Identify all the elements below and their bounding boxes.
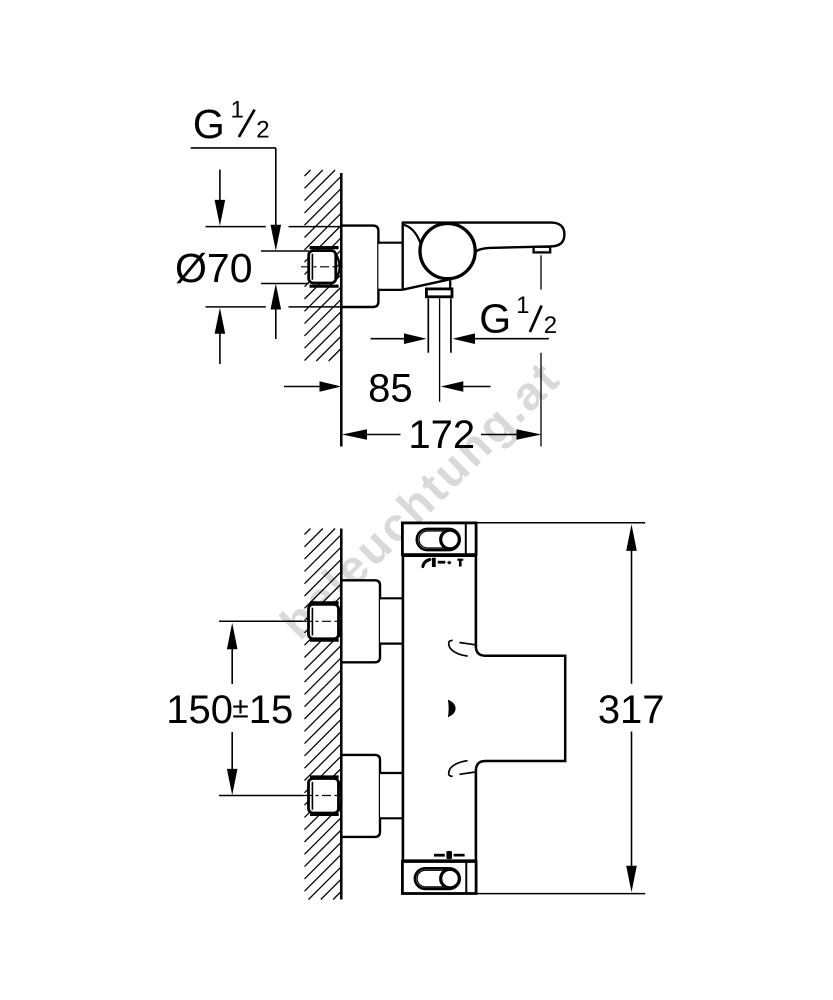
escutcheon block upper (341, 580, 380, 662)
bar left edge (402, 523, 405, 893)
dim 317 ext bottom (476, 893, 645, 895)
dim 85 left arrow (320, 381, 342, 392)
dim 85 left tail (284, 386, 321, 388)
fitting S1 centerline (301, 266, 342, 268)
label G 1/2 top (193, 97, 270, 147)
spout outlet nub (534, 247, 551, 253)
dim O70 lower tail (219, 333, 221, 364)
connector upper fill (380, 599, 403, 642)
dim G1/2 lower tail (275, 308, 277, 339)
svg-text:1: 1 (516, 292, 529, 319)
cartridge circle (420, 224, 475, 279)
svg-text:G: G (479, 296, 511, 342)
dim 150 ext lower dashdot (303, 795, 341, 797)
dim G1/2 top underline (191, 147, 276, 149)
wall face line (top view) (340, 173, 343, 447)
connector bottom edge (378, 289, 402, 291)
bottom button inner stadium (417, 870, 457, 887)
icon hook (shower) (423, 560, 430, 567)
dim G1/2 top arrow down (271, 225, 282, 251)
bar right edge lower segment (475, 770, 478, 894)
dim 172 right tail (481, 434, 517, 436)
svg-text:150: 150 (166, 688, 233, 732)
bar right edge upper segment (475, 523, 478, 647)
dim G1/2 pipe right tail (474, 338, 549, 340)
connector fill (378, 244, 402, 289)
dim 317 upper line (631, 550, 633, 684)
fitting S2 dark bar lower (310, 639, 339, 642)
dim G1/2 pipe left tail (371, 338, 405, 340)
svg-text:G: G (193, 101, 225, 147)
connector upper top edge (380, 597, 403, 599)
mid block outline (485, 656, 565, 761)
fitting S1 dark bar upper (310, 246, 339, 249)
svg-text:2: 2 (544, 312, 557, 339)
label G 1/2 pipe (479, 292, 557, 341)
svg-text:172: 172 (408, 413, 475, 457)
svg-text:±: ± (232, 692, 248, 725)
dim 172 left arrow (342, 429, 367, 440)
dim 85 right tail (462, 386, 491, 388)
body bottom diagonal (403, 279, 450, 289)
top button stadium (417, 529, 460, 550)
bottom button stadium (415, 868, 460, 889)
dim G1/2 ext line upper (261, 250, 309, 252)
handle hook bottom line (459, 772, 474, 774)
dim G1/2 top leader (275, 148, 277, 228)
connector top edge (378, 242, 402, 244)
dim 150 arrow down (227, 769, 238, 795)
dim O70 ext top left (206, 226, 266, 228)
dim O70 arrow down (215, 200, 226, 226)
bottom icon symbol (446, 851, 452, 859)
pipe left edge (427, 298, 429, 352)
wall face line (front view) (340, 529, 343, 900)
svg-text:Ø70: Ø70 (175, 245, 253, 291)
dim G1/2 pipe right arrow (453, 333, 476, 344)
pipe nut ring (426, 289, 452, 297)
svg-text:1: 1 (231, 97, 244, 124)
fitting S3 square (309, 779, 339, 814)
dim G1/2 pipe left arrow (404, 333, 427, 344)
svg-text:2: 2 (256, 117, 269, 144)
icon diamond (447, 561, 452, 565)
dim O70 upper tail (219, 170, 221, 201)
thermostat bar fill (403, 523, 476, 893)
handle hook bottom (449, 761, 468, 777)
fitting S3 dark bar lower (310, 813, 339, 816)
top cap rect (402, 523, 476, 555)
top cap separator thick (402, 555, 476, 557)
bottom button knob (441, 869, 460, 888)
dim 172 right arrow (517, 429, 542, 440)
body left fillet (404, 225, 421, 243)
dim O70 ext bottom left (206, 306, 266, 308)
pipe right edge (450, 298, 452, 352)
dim 150 ext lower solid (219, 795, 303, 797)
bottom cap separator thick (402, 859, 476, 861)
fitting S2 dark bar upper (310, 601, 339, 604)
fitting S3 inner edge (311, 782, 313, 810)
dim 150 ext upper dashdot (303, 620, 341, 622)
icon tap T (457, 559, 463, 567)
dim 317 arrow down (626, 866, 637, 893)
dim G1/2 ext line lower (261, 283, 309, 285)
dim 317 lower line (631, 732, 633, 868)
dim 317 ext top (476, 522, 645, 524)
wall hatch (front view) (305, 529, 342, 900)
top cap inner line (465, 523, 467, 555)
escutcheon block lower (341, 755, 380, 837)
dim 172 left tail (365, 434, 401, 436)
connector lower top edge (380, 772, 403, 774)
escutcheon plate (341, 226, 378, 307)
top button inner stadium (419, 531, 457, 548)
fitting S1 arc (336, 254, 340, 279)
nub extension upper (540, 255, 542, 289)
dim O70 ext top right (289, 226, 341, 228)
temperature mark dot (448, 700, 456, 718)
dim 317 arrow up (626, 524, 637, 551)
label 150+-15 (166, 688, 293, 732)
fitting S2 square (309, 604, 339, 639)
fitting S3 arc (339, 782, 343, 811)
bottom icon dash left (434, 854, 445, 857)
fitting S1 square (309, 251, 336, 283)
bottom cap rect (402, 862, 476, 894)
dim G1/2 arrow up (271, 284, 282, 310)
dim 150 ext upper solid (219, 620, 303, 622)
dim 85 right arrow (441, 381, 464, 392)
nub extension lower (540, 353, 542, 447)
dim O70 arrow up (215, 308, 226, 334)
connector lower bottom edge (380, 817, 403, 819)
faucet body and spout outline (403, 223, 565, 290)
icon bar (432, 558, 436, 567)
dim 150 upper tail (231, 648, 233, 684)
connector lower fill (380, 774, 403, 817)
svg-text:85: 85 (368, 366, 413, 410)
fitting S1 dark bar lower (310, 285, 339, 288)
icon dash (438, 561, 446, 564)
handle hook top (449, 640, 468, 656)
handle hook top line (459, 643, 474, 645)
mid block fill (476, 656, 566, 761)
dim 150 arrow up (227, 623, 238, 650)
bottom cap inner line (465, 862, 467, 894)
fillet bar to block bottom (476, 761, 486, 771)
fitting S1 inner edge (311, 254, 313, 280)
dim 150 lower tail (231, 732, 233, 770)
svg-text:317: 317 (598, 688, 665, 732)
fitting S3 dark bar upper (310, 775, 339, 778)
bottom icon dash right (454, 854, 465, 857)
svg-text:15: 15 (249, 688, 293, 732)
wall hatch (top view) (305, 170, 342, 361)
pipe centerline (439, 298, 441, 401)
connector upper bottom edge (380, 642, 403, 644)
fitting S2 arc (339, 608, 343, 637)
pipe neck right edge (449, 279, 451, 289)
fitting S2 inner edge (311, 608, 313, 636)
fillet bar to block top (476, 646, 486, 656)
dim O70 ext bottom right (289, 306, 341, 308)
top button knob (441, 530, 460, 549)
